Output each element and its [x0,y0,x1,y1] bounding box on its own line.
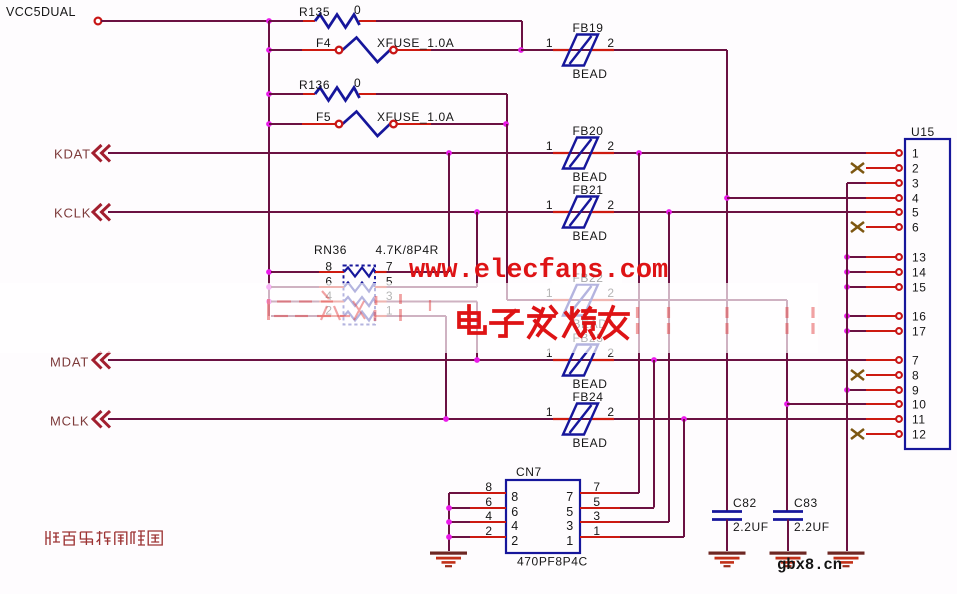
svg-text:4: 4 [912,192,919,206]
svg-text:KDAT: KDAT [54,147,91,162]
svg-text:8: 8 [325,260,332,274]
U15 pin 3 [847,177,919,191]
svg-text:BEAD: BEAD [572,436,607,450]
svg-text:8: 8 [485,480,492,494]
vertical VCC bus [268,21,270,316]
wire vertical F5 net to FB22 [506,124,508,300]
svg-text:11: 11 [912,413,926,427]
junction KDAT to CN7 [636,150,642,156]
svg-text:9: 9 [912,384,919,398]
svg-text:16: 16 [912,310,927,324]
svg-text:470PF8P4C: 470PF8P4C [517,555,588,569]
svg-text:12: 12 [912,428,927,442]
ferrite bead FB24 [546,390,615,450]
U15 pin 4 [866,192,919,206]
wire vertical MDAT to CN7 pin5 [653,360,655,508]
ferrite bead FB19 [546,21,615,81]
svg-text:F4: F4 [316,36,331,50]
watermark Chinese text dian-zi-fa-shao-you [459,306,628,338]
watermark www.elecfans.com [409,256,668,286]
junction MDAT to CN7 [651,357,657,363]
svg-text:1: 1 [546,36,553,50]
ferrite bead FB21 [546,183,615,243]
svg-text:C82: C82 [733,496,757,510]
wire KCLK to FB21 [108,211,553,213]
svg-text:6: 6 [511,505,519,519]
CN7 pin 6 (left) [449,495,519,519]
junction KCLK pullup [474,209,480,215]
svg-text:5: 5 [593,495,600,509]
CN7 pin 1 (right) [566,524,684,548]
svg-text:R136: R136 [299,78,330,92]
svg-text:2: 2 [607,405,614,419]
RN36 resistor 8-7 [271,260,393,277]
svg-text:1: 1 [546,198,553,212]
CN7 pin 3 (right) [566,509,669,533]
CN7 pin 7 (right) [566,480,639,504]
svg-text:3: 3 [912,177,919,191]
wire CN7 ground bus [448,493,450,551]
junction CN7 pin6 gnd [446,505,452,511]
fuse F4 XFUSE_1.0A [269,36,454,62]
junction bus RN36 pin6 [266,284,272,290]
U15 pin 6 [851,221,919,235]
svg-text:7: 7 [566,490,574,504]
U15 pin 15 [844,281,926,295]
svg-text:7: 7 [912,354,919,368]
svg-text:MCLK: MCLK [50,414,89,429]
wire vertical KCLK to RN36 pin5 [476,212,478,287]
svg-text:10: 10 [912,398,927,412]
wire vertical KCLK to CN7 pin3 [668,212,670,522]
wire FB21 out to U15 pin5 [614,211,866,213]
svg-text:1: 1 [593,524,600,538]
svg-text:FB19: FB19 [572,21,603,35]
wire FB22 out [614,299,787,301]
site text gbx8.cn [777,556,842,574]
svg-text:2: 2 [912,162,919,176]
svg-text:CN7: CN7 [516,465,542,479]
svg-text:www.elecfans.com: www.elecfans.com [409,256,668,286]
resistor R135 value 0 [269,3,376,28]
junction MCLK to CN7 [681,416,687,422]
wire R136 out [376,94,507,124]
watermark faint fragments [269,291,814,334]
wire FB23 out to U15 pin7 [614,359,866,361]
wire vertical KDAT to RN36 pin7 [448,153,450,272]
svg-text:F5: F5 [316,110,331,124]
svg-text:8: 8 [912,369,919,383]
wire R135 out [376,21,522,50]
svg-text:BEAD: BEAD [572,377,607,391]
port KCLK [54,204,110,221]
svg-text:2: 2 [607,139,614,153]
ferrite bead FB22 [546,271,615,331]
wire RN36 pin1 to MCLK vertical [387,316,447,419]
junction FB19 net pin4 [724,195,730,201]
svg-text:2.2UF: 2.2UF [733,520,769,534]
port MCLK [50,411,110,429]
svg-text:MDAT: MDAT [50,355,89,370]
wire pin4 branch [727,197,866,199]
wire F5 out [431,123,507,125]
junction bus R136 [266,91,272,97]
connector U15 [905,125,950,449]
U15 pin 13 [844,251,926,265]
svg-text:5: 5 [912,206,919,220]
wire vertical FB22 net down to C83 and pin10 [786,300,788,511]
svg-text:1: 1 [546,405,553,419]
wire F4 out to FB19 [431,49,553,51]
wire FB20 out to U15 pin1 [614,152,866,154]
svg-text:1: 1 [912,147,919,161]
U15 pin 17 [844,325,926,339]
svg-text:15: 15 [912,281,927,295]
svg-text:FB20: FB20 [572,124,603,138]
wire VCC5DUAL to bus [101,20,269,22]
wire MDAT to FB23 [108,359,553,361]
RN36 resistor 4-3 [271,289,393,306]
ground CN7 [430,552,467,568]
svg-text:1: 1 [566,534,574,548]
svg-text:BEAD: BEAD [572,229,607,243]
svg-text:2: 2 [607,198,614,212]
svg-text:2: 2 [485,524,492,538]
wire vertical U15 ground net [846,183,848,551]
junction MDAT pullup [474,357,480,363]
wire RN36 pin7 to KDAT vertical [387,271,450,273]
svg-text:FB21: FB21 [572,183,603,197]
U15 pin 14 [844,266,926,280]
svg-text:5: 5 [566,505,574,519]
svg-text:0: 0 [354,3,361,17]
svg-text:FB24: FB24 [572,390,603,404]
U15 pin 16 [844,310,926,324]
fuse F5 XFUSE_1.0A [269,110,454,136]
junction bus RN36 pin8 [266,269,272,275]
wire FB24 out to U15 pin11 [614,418,866,420]
capacitor C82 2.2UF [712,496,769,551]
svg-text:4: 4 [511,519,519,533]
resistor R136 value 0 [269,76,376,101]
svg-text:17: 17 [912,325,927,339]
capacitor C83 2.2UF [773,496,830,551]
port KDAT [54,145,110,162]
svg-text:RN36: RN36 [314,243,347,257]
svg-text:6: 6 [485,495,492,509]
CN7 pin 5 (right) [566,495,654,519]
junction KCLK to CN7 [666,209,672,215]
ferrite bead FB20 [546,124,615,184]
junction CN7 pin4 gnd [446,519,452,525]
svg-text:XFUSE_1.0A: XFUSE_1.0A [377,110,454,124]
wire RN36 pin3 to MDAT vertical [387,302,478,361]
junction CN7 pin2 gnd [446,534,452,540]
ground C83 [770,552,807,568]
junction bus RN36 pin4 [266,299,272,305]
svg-text:4.7K/8P4R: 4.7K/8P4R [376,243,439,257]
capacitor network CN7 470PF8P4C [506,465,588,569]
junction bus top [266,18,272,24]
ground U15 shield [828,552,865,568]
RN36 resistor 2-1 [271,304,393,321]
RN36 resistor 6-5 [271,275,393,292]
svg-text:8: 8 [511,490,519,504]
wire F5 net to FB22 [507,299,553,301]
U15 pin 7 [866,354,919,368]
junction R136/F5 [503,121,509,127]
U15 pin 8 [851,369,919,383]
CN7 pin 4 (left) [449,509,519,533]
U15 pin 5 [866,206,919,220]
wire RN36 pin5 to KCLK vertical [387,286,478,288]
svg-text:14: 14 [912,266,927,280]
svg-text:BEAD: BEAD [572,67,607,81]
svg-text:C83: C83 [794,496,818,510]
wire vertical KDAT to CN7 pin7 [638,153,640,493]
svg-text:KCLK: KCLK [54,206,91,221]
wire VCC-K net FB19 row [521,49,553,51]
svg-text:U15: U15 [911,125,935,139]
power port VCC5DUAL [6,5,101,24]
wire vertical FB19 net down to C82 and pin4 [726,50,728,511]
port MDAT [50,352,110,370]
junction FB22 net pin10 [784,401,790,407]
junction R135/F4 [518,47,524,53]
svg-text:2.2UF: 2.2UF [794,520,830,534]
svg-text:XFUSE_1.0A: XFUSE_1.0A [377,36,454,50]
ferrite bead FB23 [546,331,615,391]
U15 pin 12 [851,428,927,442]
CN7 pin 2 (left) [449,524,519,548]
svg-text:6: 6 [912,221,919,235]
svg-text:13: 13 [912,251,927,265]
wire KDAT to FB20 [108,152,553,154]
resistor network RN36 4.7K/8P4R [314,243,439,325]
title text keyboard-mouse schematic [46,531,162,545]
U15 pin 2 [851,162,919,176]
junction MCLK pullup [443,416,449,422]
svg-text:gbx8.cn: gbx8.cn [777,556,842,574]
wire MCLK to FB24 [108,418,553,420]
junction KDAT pullup [446,150,452,156]
svg-text:1: 1 [546,139,553,153]
wire pin10 branch [787,403,866,405]
CN7 pin 8 (left) [449,480,519,504]
svg-text:4: 4 [485,509,492,523]
wire FB19 out [614,49,727,51]
svg-text:7: 7 [593,480,600,494]
svg-text:BEAD: BEAD [572,170,607,184]
U15 pin 11 [866,413,926,427]
junction bus F5 [266,121,272,127]
svg-text:2: 2 [607,36,614,50]
ground C82 [709,552,746,568]
junction bus F4 [266,47,272,53]
svg-text:3: 3 [566,519,574,533]
watermark translucent band [0,270,818,353]
svg-text:R135: R135 [299,5,330,19]
svg-text:0: 0 [354,76,361,90]
wire vertical MCLK to CN7 pin1 [683,419,685,537]
svg-text:2: 2 [511,534,519,548]
svg-text:3: 3 [593,509,600,523]
U15 pin 10 [866,398,927,412]
U15 pin 9 [844,384,919,398]
svg-text:VCC5DUAL: VCC5DUAL [6,5,76,19]
U15 pin 1 [866,147,919,161]
